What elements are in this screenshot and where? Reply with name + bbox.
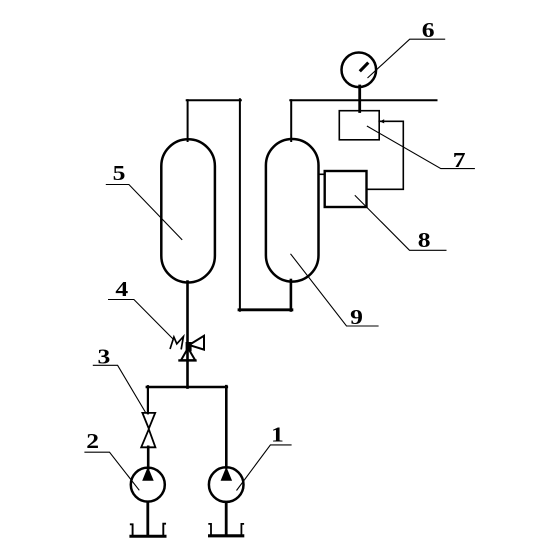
wire: long top horizontal	[290, 99, 436, 101]
wire: down leg between vessels	[239, 99, 241, 310]
pump 1	[209, 467, 244, 502]
svg-text:1: 1	[271, 424, 284, 447]
wire: pump 2 outlet	[146, 502, 149, 536]
valve 3	[141, 413, 155, 447]
svg-text:7: 7	[453, 149, 466, 172]
svg-text:9: 9	[350, 306, 363, 329]
box 8	[325, 171, 367, 207]
wire: right branch to pump 1	[225, 386, 228, 467]
wire: gauge stem	[358, 86, 361, 112]
valve 4	[170, 336, 204, 361]
svg-text:8: 8	[418, 229, 431, 252]
label 3 leader and underline	[93, 365, 146, 413]
wire: box 7 to box 8 connector	[367, 119, 404, 189]
wire: left branch upper	[147, 386, 149, 413]
pump 2	[131, 467, 165, 502]
wire: bottom horizontal to vessel 9	[239, 308, 292, 311]
svg-text:6: 6	[422, 19, 435, 42]
pressure gauge 6	[342, 53, 377, 88]
label 8 leader and underline	[355, 195, 447, 250]
box 7	[339, 111, 379, 140]
label 5 leader and underline	[106, 185, 182, 240]
svg-text:2: 2	[86, 430, 99, 453]
wire: vessel 9 top pipe	[290, 100, 292, 141]
vessel 5	[161, 139, 215, 282]
label 4 leader and underline	[108, 300, 173, 340]
label 7 leader and underline	[367, 126, 475, 169]
wire: pump 1 outlet	[225, 503, 228, 536]
label 1 leader and underline	[237, 445, 292, 491]
wire: vessel 9 bottom pipe	[290, 280, 293, 311]
wire: valve line below vessel 5	[186, 282, 189, 388]
wire: T junction horizontal	[147, 386, 227, 388]
svg-text:4: 4	[115, 278, 128, 301]
wire: vessel 9 to box 8 tick	[318, 173, 324, 175]
svg-text:3: 3	[97, 346, 110, 369]
label 9 leader and underline	[291, 254, 379, 326]
vessel 9	[266, 139, 319, 282]
svg-text:5: 5	[113, 162, 126, 185]
sump under pump 2	[131, 524, 165, 537]
label 2 leader and underline	[84, 452, 139, 490]
wire: vessel 5 top pipe	[187, 100, 189, 141]
wire: top horizontal between vessels	[187, 99, 241, 101]
wire: left branch lower	[147, 447, 150, 469]
label 6 leader and underline	[368, 39, 446, 78]
sump under pump 1	[209, 524, 243, 536]
